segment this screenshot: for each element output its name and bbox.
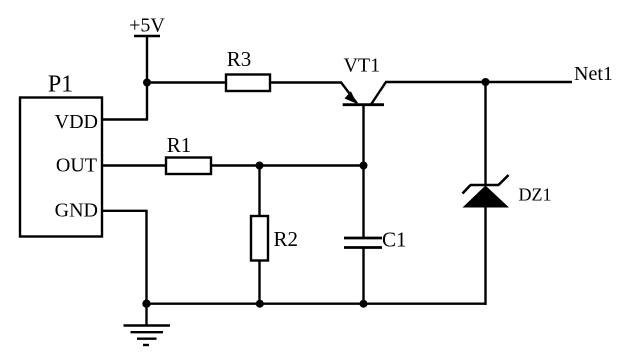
wire VDD pin <box>101 118 148 120</box>
resistor R3 <box>226 75 270 92</box>
node GND rail left junction <box>142 300 150 308</box>
svg-text:R1: R1 <box>167 133 192 157</box>
node R2 top junction <box>256 162 264 170</box>
label Net1 <box>574 63 613 85</box>
diode DZ1 (zener) <box>463 175 510 208</box>
wire DZ1 bottom <box>484 207 486 305</box>
wire OUT pin to R1 <box>101 164 166 166</box>
resistor R2 <box>251 216 268 261</box>
svg-text:C1: C1 <box>382 228 407 252</box>
pin GND <box>55 200 98 222</box>
wire VT1 base <box>362 105 364 166</box>
wire R1 to VT1 base node <box>211 164 364 166</box>
svg-text:Net1: Net1 <box>574 63 613 85</box>
label R3 <box>227 47 252 71</box>
wire R2 top <box>258 166 260 217</box>
resistor R1 <box>166 158 211 175</box>
svg-text:R2: R2 <box>274 227 299 251</box>
wire C1 bottom <box>362 248 364 304</box>
svg-text:P1: P1 <box>48 72 73 98</box>
label R2 <box>274 227 299 251</box>
wire VT1 collector to Net1 <box>385 81 572 83</box>
label P1 <box>48 72 73 98</box>
label C1 <box>382 228 407 252</box>
wire R2 bottom <box>258 261 260 304</box>
capacitor C1 <box>344 238 382 248</box>
svg-text:DZ1: DZ1 <box>519 185 552 205</box>
wire DZ1 top <box>484 82 486 186</box>
power +5V <box>129 15 165 37</box>
svg-text:+5V: +5V <box>129 15 165 37</box>
pin VDD <box>55 111 98 133</box>
node VT1 base junction <box>360 162 368 170</box>
node +5V/R3 junction <box>143 79 151 87</box>
wire ground rail <box>147 303 487 305</box>
ground <box>124 304 171 345</box>
wire R3 to VT1 emitter <box>270 81 342 83</box>
label R1 <box>167 133 192 157</box>
wire GND pin <box>101 210 148 212</box>
svg-text:R3: R3 <box>227 47 252 71</box>
label DZ1 <box>519 185 552 205</box>
wire C1 top <box>362 166 364 238</box>
wire +5V vertical <box>146 36 148 120</box>
node Net1/DZ1 junction <box>482 78 490 86</box>
node R2 bottom junction <box>256 300 264 308</box>
wire node to R3 <box>147 81 226 83</box>
transistor VT1 <box>341 82 386 104</box>
wire GND down <box>145 211 147 304</box>
svg-text:VT1: VT1 <box>343 55 380 77</box>
svg-text:GND: GND <box>55 200 98 222</box>
pin OUT <box>56 155 97 177</box>
svg-text:VDD: VDD <box>55 111 98 133</box>
node C1 bottom junction <box>360 300 368 308</box>
label VT1 <box>343 55 380 77</box>
svg-text:OUT: OUT <box>56 155 97 177</box>
IC P1 <box>20 98 102 237</box>
